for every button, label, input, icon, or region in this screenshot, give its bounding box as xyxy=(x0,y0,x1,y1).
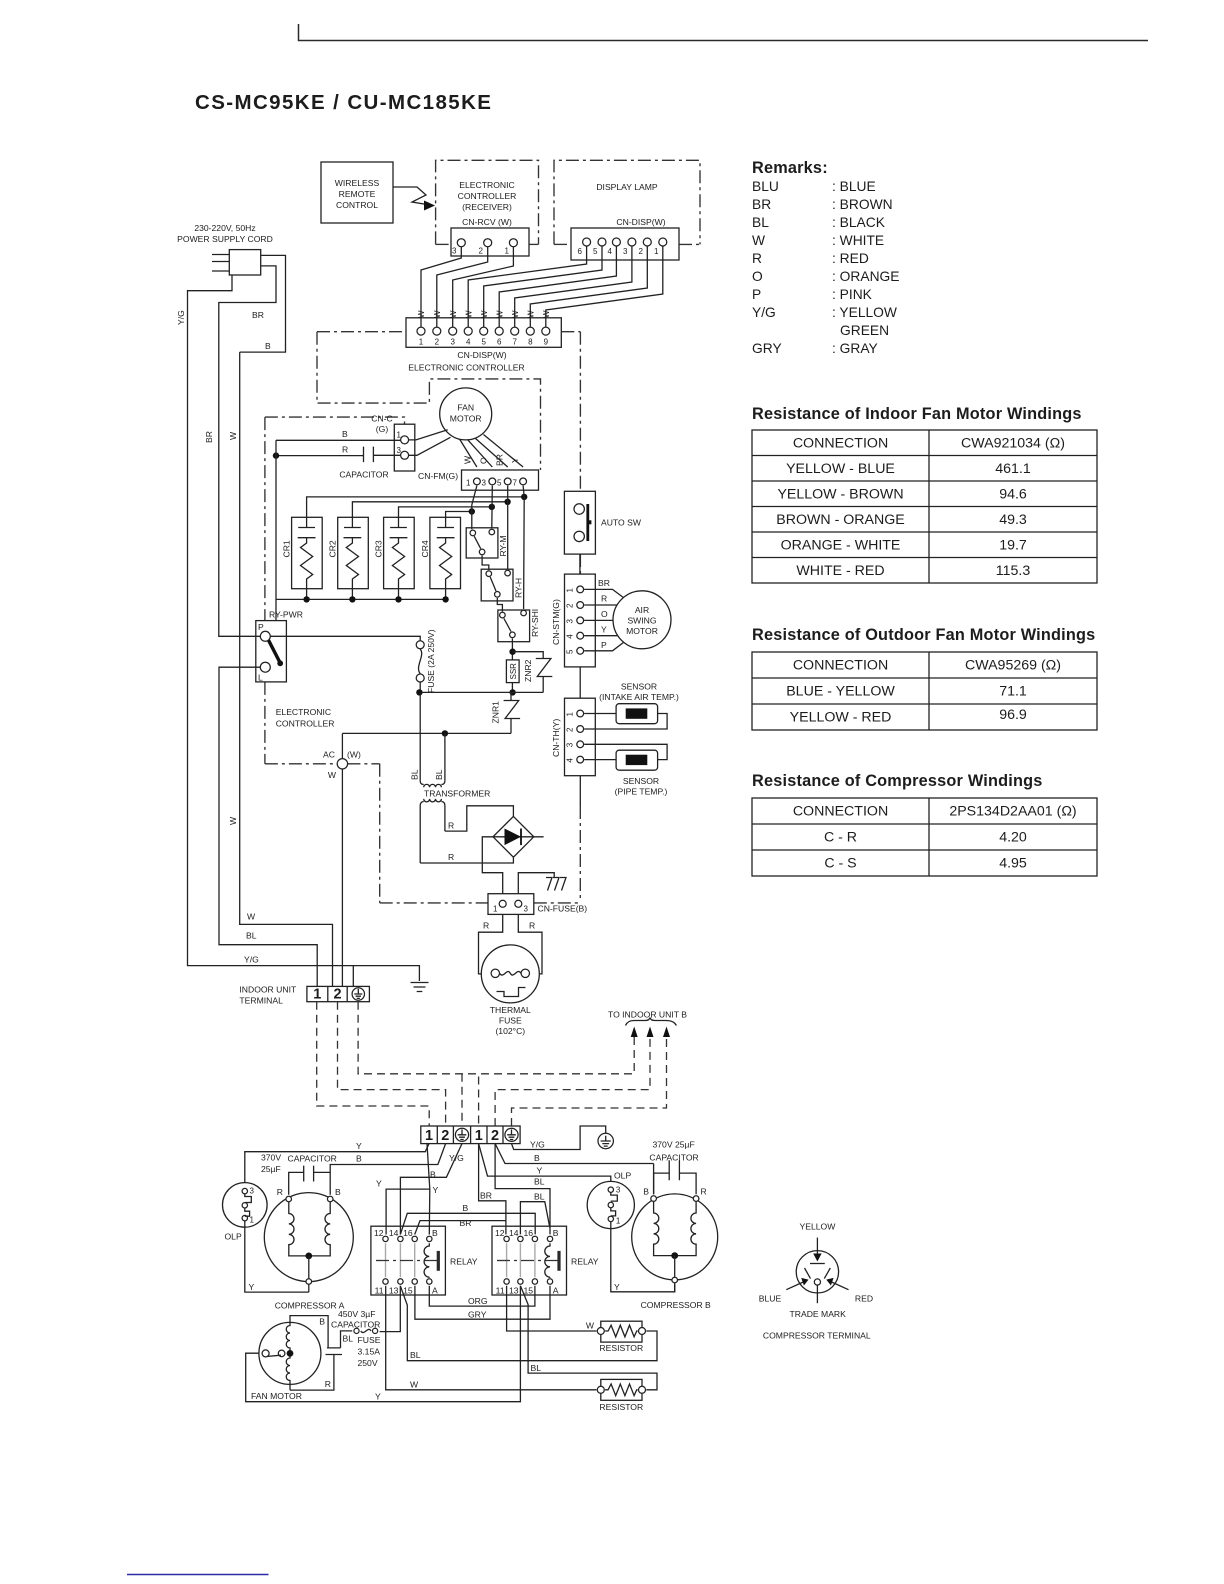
svg-text:Y: Y xyxy=(249,1282,255,1292)
svg-text:B: B xyxy=(534,1153,540,1163)
table indoor fan motor windings xyxy=(752,405,1097,583)
svg-text:CWA95269 (Ω): CWA95269 (Ω) xyxy=(965,658,1061,674)
wire B cell B2 to compressor B xyxy=(495,1144,653,1164)
svg-text:TRADE MARK: TRADE MARK xyxy=(790,1309,847,1319)
resistor 1 xyxy=(597,1321,645,1353)
connector CN-C(G) xyxy=(371,414,415,472)
svg-text:R: R xyxy=(529,921,535,931)
svg-text:BL: BL xyxy=(343,1334,354,1344)
svg-text:B: B xyxy=(335,1187,341,1197)
wire B from plug xyxy=(240,255,286,352)
svg-text:SSR: SSR xyxy=(509,663,518,680)
svg-text:ELECTRONIC: ELECTRONIC xyxy=(459,180,514,190)
svg-text:(INTAKE AIR TEMP.): (INTAKE AIR TEMP.) xyxy=(599,692,679,702)
svg-text:B: B xyxy=(356,1154,362,1164)
svg-text:C - S: C - S xyxy=(824,856,856,872)
outdoor fan motor xyxy=(251,1322,321,1401)
relay A xyxy=(371,1226,478,1295)
svg-text:W: W xyxy=(465,310,474,318)
svg-text:B: B xyxy=(643,1187,649,1197)
svg-text:461.1: 461.1 xyxy=(995,461,1031,477)
svg-text:9: 9 xyxy=(544,338,549,347)
svg-text:WHITE - RED: WHITE - RED xyxy=(796,563,884,579)
svg-text:BL: BL xyxy=(246,931,257,941)
svg-text:Y: Y xyxy=(356,1141,362,1151)
svg-text:13: 13 xyxy=(509,1286,519,1296)
svg-text:W: W xyxy=(586,1321,595,1331)
svg-text:: BROWN: : BROWN xyxy=(832,197,893,212)
svg-text:1: 1 xyxy=(566,712,575,717)
svg-text:DISPLAY LAMP: DISPLAY LAMP xyxy=(596,182,658,192)
svg-text:2PS134D2AA01 (Ω): 2PS134D2AA01 (Ω) xyxy=(949,804,1076,820)
svg-text:A: A xyxy=(432,1286,438,1296)
svg-text:GRY: GRY xyxy=(468,1310,487,1320)
vertical wire B/R bus to RY-PWR xyxy=(275,440,277,620)
svg-text:W: W xyxy=(527,310,536,318)
display lamp box xyxy=(554,160,700,244)
svg-text:BL: BL xyxy=(752,215,769,230)
svg-text:3: 3 xyxy=(524,905,529,914)
svg-text:CR2: CR2 xyxy=(328,540,338,557)
svg-text:MOTOR: MOTOR xyxy=(626,626,658,636)
svg-text:SENSOR: SENSOR xyxy=(621,682,657,692)
svg-text:P: P xyxy=(752,287,761,302)
wire W relay A pin11 to resistor 2 xyxy=(386,1286,597,1390)
dashed wires to indoor unit B xyxy=(495,1036,666,1126)
wire Y OLP A to compressor A xyxy=(245,1221,309,1292)
svg-text:CR1: CR1 xyxy=(282,540,292,557)
wire B fan motor to capacitor 450V xyxy=(290,1316,328,1348)
svg-text:2: 2 xyxy=(441,1128,449,1144)
connector CN-TH(Y) xyxy=(551,698,595,776)
svg-text:16: 16 xyxy=(523,1228,533,1238)
svg-text:CN-STM(G): CN-STM(G) xyxy=(551,599,561,645)
svg-text:B: B xyxy=(553,1228,559,1238)
wire BL cell B2 to relay B coil B xyxy=(495,1144,550,1235)
svg-text:15: 15 xyxy=(403,1286,413,1296)
svg-text:1: 1 xyxy=(250,1216,255,1225)
svg-text:CN-FUSE(B): CN-FUSE(B) xyxy=(538,904,588,914)
svg-text:250V: 250V xyxy=(358,1358,378,1368)
svg-text:BL: BL xyxy=(534,1192,545,1202)
svg-text:4: 4 xyxy=(608,247,613,256)
svg-text:CONTROL: CONTROL xyxy=(336,200,378,210)
svg-text:2: 2 xyxy=(566,603,575,608)
svg-text:COMPRESSOR TERMINAL: COMPRESSOR TERMINAL xyxy=(763,1331,871,1341)
svg-text:ORANGE - WHITE: ORANGE - WHITE xyxy=(781,538,901,554)
svg-text:5: 5 xyxy=(566,649,575,654)
svg-text:RESISTOR: RESISTOR xyxy=(599,1343,643,1353)
compressor A xyxy=(264,1187,353,1311)
capacitor (indoor fan) with R wire xyxy=(273,445,401,480)
relay B xyxy=(492,1226,599,1295)
svg-text:CONTROLLER: CONTROLLER xyxy=(458,191,517,201)
wire Y/G to outdoor earth xyxy=(512,1126,606,1150)
svg-text:CONNECTION: CONNECTION xyxy=(793,658,888,674)
svg-text:3: 3 xyxy=(616,1186,621,1195)
electronic controller (receiver) box xyxy=(436,160,539,244)
svg-text:BL: BL xyxy=(410,769,420,780)
svg-text:19.7: 19.7 xyxy=(999,538,1027,554)
wire labels W O BR Y at CN-FM xyxy=(463,454,521,466)
connector CN-DISP(W) display side xyxy=(571,228,679,260)
svg-text:W: W xyxy=(752,233,765,248)
svg-text:INDOOR UNIT: INDOOR UNIT xyxy=(239,985,297,995)
outdoor terminal strip xyxy=(421,1126,520,1144)
arrows to indoor unit B xyxy=(608,1010,687,1038)
svg-text:(102°C): (102°C) xyxy=(495,1026,525,1036)
svg-text:BROWN - ORANGE: BROWN - ORANGE xyxy=(776,512,904,528)
svg-text:BL: BL xyxy=(534,1177,545,1187)
svg-text:CAPACITOR: CAPACITOR xyxy=(649,1153,698,1163)
svg-text:COMPRESSOR B: COMPRESSOR B xyxy=(641,1300,711,1310)
svg-text:CONTROLLER: CONTROLLER xyxy=(276,719,335,729)
svg-text:TRANSFORMER: TRANSFORMER xyxy=(424,789,490,799)
svg-text:Y/G: Y/G xyxy=(244,955,259,965)
svg-text:R: R xyxy=(483,921,489,931)
svg-text:RELAY: RELAY xyxy=(571,1257,599,1267)
svg-text:CONNECTION: CONNECTION xyxy=(793,804,888,820)
svg-text:1: 1 xyxy=(397,431,402,440)
W wire labels xyxy=(417,310,551,318)
svg-text:B: B xyxy=(342,429,348,439)
svg-text:: GRAY: : GRAY xyxy=(832,341,878,356)
svg-text:TERMINAL: TERMINAL xyxy=(239,996,283,1006)
relay CR1 xyxy=(282,517,323,599)
svg-text:P: P xyxy=(258,622,264,632)
svg-text:450V 3µF: 450V 3µF xyxy=(338,1309,375,1319)
svg-text:CN-RCV (W): CN-RCV (W) xyxy=(462,217,512,227)
power supply cord label xyxy=(177,223,273,244)
SSR xyxy=(506,660,519,683)
svg-text:BL: BL xyxy=(434,769,444,780)
svg-text:: BLUE: : BLUE xyxy=(832,179,876,194)
svg-text:BL: BL xyxy=(531,1363,542,1373)
svg-text:POWER SUPPLY CORD: POWER SUPPLY CORD xyxy=(177,234,273,244)
svg-text:A: A xyxy=(553,1286,559,1296)
relay RY-SHI xyxy=(498,609,540,642)
svg-text:96.9: 96.9 xyxy=(999,707,1027,723)
svg-text:: YELLOW: : YELLOW xyxy=(832,305,897,320)
svg-text:4: 4 xyxy=(566,758,575,763)
indoor controller dash-dot boundary xyxy=(265,332,581,903)
svg-text:Resistance of Outdoor Fan Moto: Resistance of Outdoor Fan Motor Windings xyxy=(752,626,1095,644)
relay RY-M xyxy=(466,528,508,558)
riser pin1 W to RY-M left xyxy=(472,486,477,530)
capacitor 450V 3uF xyxy=(290,1309,380,1390)
svg-text:W: W xyxy=(410,1380,419,1390)
svg-text:11: 11 xyxy=(375,1286,384,1296)
transformer xyxy=(410,692,491,863)
wire BL relay A pin13 to resistor 1 xyxy=(400,1286,657,1361)
svg-text:AC: AC xyxy=(323,750,335,760)
svg-text:1: 1 xyxy=(466,479,471,488)
riser pin5 BR to RY-H xyxy=(507,486,509,570)
remarks legend xyxy=(752,159,899,356)
wire ORG relay A pinA to relay B pin15 xyxy=(429,1286,535,1306)
svg-text:R: R xyxy=(342,445,348,455)
svg-text:14: 14 xyxy=(509,1228,519,1238)
svg-text:W: W xyxy=(449,310,458,318)
svg-text:W: W xyxy=(542,310,551,318)
svg-text:(G): (G) xyxy=(376,424,389,434)
svg-text:TO INDOOR UNIT B: TO INDOOR UNIT B xyxy=(608,1010,687,1020)
svg-text:14: 14 xyxy=(389,1228,399,1238)
svg-text:Remarks:: Remarks: xyxy=(752,159,828,177)
svg-text:3: 3 xyxy=(452,247,457,256)
svg-text:W: W xyxy=(511,310,520,318)
capacitor A 370V 25uF xyxy=(261,1153,337,1195)
svg-text:R: R xyxy=(448,821,454,831)
wire Y relay B pin13 to outdoor fan motor xyxy=(246,1286,521,1402)
svg-text:1: 1 xyxy=(566,588,575,593)
wire BL relay B pin14 to coil B xyxy=(520,1192,549,1235)
svg-text:(RECEIVER): (RECEIVER) xyxy=(462,202,512,212)
svg-text:YELLOW: YELLOW xyxy=(799,1222,836,1232)
wire D (W tap to CR4) xyxy=(446,508,475,517)
svg-text:FAN MOTOR: FAN MOTOR xyxy=(251,1391,302,1401)
svg-text:OLP: OLP xyxy=(225,1232,242,1242)
earth wire and ground symbol at indoor terminal xyxy=(353,966,428,992)
wire B compressor A to cell A2 xyxy=(330,1144,445,1195)
table compressor windings xyxy=(752,772,1097,876)
svg-text:O: O xyxy=(752,269,763,284)
earth symbol circle xyxy=(598,1133,613,1148)
svg-text:AIR: AIR xyxy=(635,605,649,615)
svg-text:25µF: 25µF xyxy=(261,1164,281,1174)
step wire RY-H to RY-SHI xyxy=(497,598,502,612)
svg-text:4: 4 xyxy=(466,338,471,347)
svg-text:2: 2 xyxy=(333,987,341,1003)
wire R transformer to bridge bottom xyxy=(420,852,513,863)
svg-text:8: 8 xyxy=(528,338,533,347)
svg-text:CAPACITOR: CAPACITOR xyxy=(339,470,388,480)
svg-text:CN-DISP(W): CN-DISP(W) xyxy=(616,217,665,227)
svg-text:Y/G: Y/G xyxy=(176,310,186,325)
svg-text:RY-SHI: RY-SHI xyxy=(530,609,540,637)
svg-text:CN-FM(G): CN-FM(G) xyxy=(418,471,458,481)
dashed wire terminal 1 to outdoor 1 xyxy=(317,1002,430,1126)
indoor unit terminal xyxy=(239,985,369,1006)
svg-text:BR: BR xyxy=(752,197,771,212)
svg-text:W: W xyxy=(433,310,442,318)
svg-text:6: 6 xyxy=(578,247,583,256)
svg-text:ELECTRONIC: ELECTRONIC xyxy=(276,707,331,717)
wire RY-SHI to SSR node xyxy=(509,638,515,695)
AC (W) node xyxy=(323,733,361,986)
svg-text:Y: Y xyxy=(601,625,607,635)
svg-text:Resistance of Indoor Fan Motor: Resistance of Indoor Fan Motor Windings xyxy=(752,405,1082,423)
svg-text:SWING: SWING xyxy=(627,616,656,626)
step wire RY-M to RY-H xyxy=(482,556,489,571)
varistor ZNR2 xyxy=(513,652,553,693)
wire B relay A pin14 to relay B pin16 xyxy=(400,1203,535,1235)
svg-text:W: W xyxy=(247,912,256,922)
svg-text:C - R: C - R xyxy=(824,830,857,846)
svg-text:5: 5 xyxy=(497,479,502,488)
svg-text:AUTO SW: AUTO SW xyxy=(601,518,642,528)
svg-text:RELAY: RELAY xyxy=(450,1257,478,1267)
compressor terminal trademark diagram xyxy=(759,1222,873,1341)
svg-text:2: 2 xyxy=(566,727,575,732)
wire B (BR tap to CR2) xyxy=(352,499,510,518)
wire BR cell B1 to relay B pin 12 xyxy=(479,1144,506,1235)
svg-text:YELLOW - BROWN: YELLOW - BROWN xyxy=(777,487,903,503)
svg-text:BR: BR xyxy=(495,454,505,466)
svg-text:OLP: OLP xyxy=(614,1171,631,1181)
fan motor (indoor) xyxy=(440,388,492,440)
wire BL relay B pin13 to resistor 2 xyxy=(520,1286,657,1390)
svg-text:O: O xyxy=(601,609,608,619)
svg-text:ZNR2: ZNR2 xyxy=(523,659,533,682)
svg-text:R: R xyxy=(448,852,454,862)
svg-text:5: 5 xyxy=(593,247,598,256)
svg-text:: PINK: : PINK xyxy=(832,287,873,302)
svg-text:FAN: FAN xyxy=(457,403,474,413)
svg-text:230-220V, 50Hz: 230-220V, 50Hz xyxy=(194,223,255,233)
overload protector OLP B xyxy=(587,1171,634,1229)
dashed wire terminal 2 to outdoor 2 xyxy=(338,1002,446,1126)
svg-text:L: L xyxy=(258,673,263,683)
svg-text:1: 1 xyxy=(505,247,510,256)
svg-text:1: 1 xyxy=(654,247,659,256)
svg-text:3: 3 xyxy=(566,619,575,624)
sensor pipe temp body xyxy=(616,750,658,770)
power plug xyxy=(212,250,261,275)
svg-text:BR: BR xyxy=(598,578,610,588)
svg-text:O: O xyxy=(479,457,489,464)
svg-text:: WHITE: : WHITE xyxy=(832,233,884,248)
svg-text:CAPACITOR: CAPACITOR xyxy=(288,1154,337,1164)
svg-text:1: 1 xyxy=(313,987,321,1003)
svg-text:3: 3 xyxy=(250,1187,255,1196)
svg-text:49.3: 49.3 xyxy=(999,512,1027,528)
wire BR from plug to RY-PWR P xyxy=(204,266,276,636)
svg-text:Y/G: Y/G xyxy=(752,305,776,320)
air swing motor xyxy=(613,591,671,649)
table outdoor fan motor windings xyxy=(752,626,1097,730)
wire BR relay A pin16 to BR riser xyxy=(415,1218,506,1235)
svg-text:GRY: GRY xyxy=(752,341,782,356)
svg-text:3: 3 xyxy=(450,338,455,347)
overload protector OLP A xyxy=(223,1183,268,1242)
svg-text:3: 3 xyxy=(623,247,628,256)
varistor ZNR1 xyxy=(491,692,521,733)
svg-text:15: 15 xyxy=(523,1286,533,1296)
wire W vertical to indoor terminal 2 xyxy=(228,352,333,986)
relay CR4 xyxy=(420,517,461,599)
svg-text:CONNECTION: CONNECTION xyxy=(793,436,888,452)
wire BL from RY-PWR L to indoor terminal 1 xyxy=(219,667,317,986)
svg-text:2: 2 xyxy=(639,247,644,256)
sensor intake air temp body xyxy=(616,704,658,724)
dashed wire terminal earth row xyxy=(358,1002,634,1126)
svg-text:ZNR1: ZNR1 xyxy=(491,701,501,724)
svg-text:R: R xyxy=(325,1379,331,1389)
svg-text:B: B xyxy=(432,1228,438,1238)
svg-text:W: W xyxy=(496,310,505,318)
wire W relay B pin11 to resistor 1 xyxy=(507,1286,597,1331)
svg-text:2: 2 xyxy=(479,247,484,256)
svg-text:13: 13 xyxy=(389,1286,399,1296)
svg-text:B: B xyxy=(265,341,271,351)
fuse (2A 250V) xyxy=(270,629,436,693)
wires fan motor to CN-FM xyxy=(460,435,524,468)
svg-text:3: 3 xyxy=(566,742,575,747)
svg-text:MOTOR: MOTOR xyxy=(450,414,482,424)
svg-text:BR: BR xyxy=(204,431,214,443)
svg-text:(W): (W) xyxy=(347,750,361,760)
svg-text:CN-C: CN-C xyxy=(371,414,392,424)
node row 692 xyxy=(416,689,543,695)
svg-text:1: 1 xyxy=(425,1128,433,1144)
svg-text:W: W xyxy=(228,816,238,825)
svg-text:6: 6 xyxy=(497,338,502,347)
svg-text:CS-MC95KE / CU-MC185KE: CS-MC95KE / CU-MC185KE xyxy=(195,91,492,114)
resistor 2 xyxy=(597,1379,645,1412)
relay CR3 xyxy=(374,517,415,599)
node row 733 xyxy=(342,730,511,736)
svg-text:Y: Y xyxy=(433,1185,439,1195)
footer rule xyxy=(127,1574,269,1576)
wire Y cell B1 to OLP B xyxy=(479,1144,611,1187)
sensor intake air temp loop xyxy=(584,682,679,730)
svg-text:BR: BR xyxy=(460,1218,472,1228)
wire auto sw to CN-STM xyxy=(579,554,581,574)
svg-text:4.20: 4.20 xyxy=(999,830,1027,846)
svg-text:ELECTRONIC CONTROLLER: ELECTRONIC CONTROLLER xyxy=(408,363,525,373)
svg-text:W: W xyxy=(480,310,489,318)
fuse 3.15A 250V xyxy=(341,1328,381,1368)
connector CN-FM(G) xyxy=(418,470,539,490)
svg-text:WIRELESS: WIRELESS xyxy=(335,178,380,188)
relay CR2 xyxy=(328,517,369,599)
svg-text:BLUE: BLUE xyxy=(759,1294,782,1304)
svg-text:RY-M: RY-M xyxy=(498,535,508,556)
svg-text:FUSE: FUSE xyxy=(499,1016,522,1026)
svg-text:YELLOW - RED: YELLOW - RED xyxy=(790,710,892,726)
relay RY-H xyxy=(481,569,523,601)
auto switch xyxy=(564,491,641,554)
svg-text:RY-PWR: RY-PWR xyxy=(269,610,303,620)
svg-text:12: 12 xyxy=(374,1228,384,1238)
svg-text:5: 5 xyxy=(481,338,486,347)
svg-text:3.15A: 3.15A xyxy=(358,1347,381,1357)
svg-text:11: 11 xyxy=(496,1286,505,1296)
svg-text:GREEN: GREEN xyxy=(840,323,889,338)
wire B to CN-C pin1 xyxy=(276,429,401,440)
svg-text:BLUE - YELLOW: BLUE - YELLOW xyxy=(786,684,895,700)
svg-text:12: 12 xyxy=(495,1228,505,1238)
svg-text:YELLOW - BLUE: YELLOW - BLUE xyxy=(786,461,895,477)
svg-text:FUSE: FUSE xyxy=(358,1335,381,1345)
wires fan motor to CN-C xyxy=(409,430,451,456)
signal arrow xyxy=(393,187,435,211)
svg-text:115.3: 115.3 xyxy=(996,563,1031,579)
svg-text:: ORANGE: : ORANGE xyxy=(832,269,899,284)
sensor pipe temp loop xyxy=(584,744,667,796)
wire Y OLP B to compressor B xyxy=(611,1222,675,1292)
svg-text:R: R xyxy=(277,1187,283,1197)
svg-text:B: B xyxy=(319,1317,325,1327)
svg-text:ORG: ORG xyxy=(468,1296,488,1306)
wire GRY relay A pin15 to relay B pinA xyxy=(415,1286,550,1320)
svg-text:B: B xyxy=(430,1170,436,1180)
svg-text:3: 3 xyxy=(397,446,402,455)
svg-text:BR: BR xyxy=(480,1191,492,1201)
riser pin7 Y to RY-SHI xyxy=(523,486,524,609)
svg-text:RED: RED xyxy=(855,1294,873,1304)
